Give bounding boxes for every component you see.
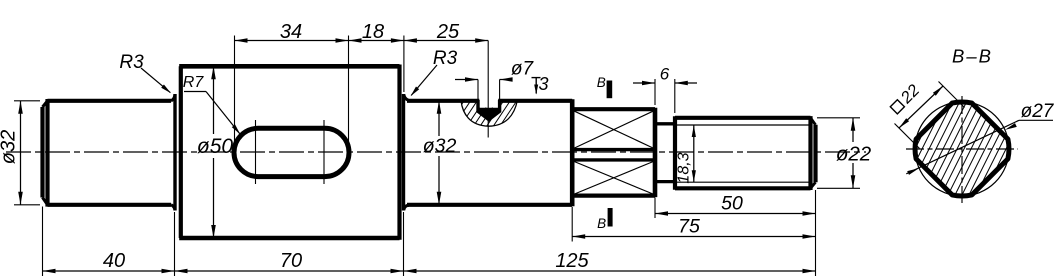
dimension line Ø50: [213, 66, 215, 134]
svg-text:ø32: ø32: [423, 135, 457, 157]
leader R3 right: [411, 65, 437, 95]
section mark B top bar: [607, 81, 613, 99]
leader R7: [184, 91, 206, 93]
extension line at keyway left end: [234, 36, 236, 153]
section mark B bottom bar: [608, 208, 613, 227]
svg-text:В: В: [597, 75, 606, 90]
break-out section boundary (freehand arc): [461, 101, 517, 127]
B-B square outline (thick): [915, 102, 1009, 196]
extension of NE flat: [939, 82, 965, 108]
square flats crossed diagonals (lower): [575, 162, 654, 194]
svg-text:В–В: В–В: [952, 46, 993, 67]
extension line at shaft right end bottom: [815, 190, 817, 276]
thread relief groove outline: [657, 122, 674, 125]
break-out hatching: [430, 99, 577, 132]
square section outline: [572, 107, 655, 111]
extension line left step bottom: [174, 212, 176, 276]
extension line right step bottom: [403, 212, 405, 276]
dimension line 34: [235, 40, 349, 42]
dimension line Ø22: [852, 118, 854, 142]
svg-text:70: 70: [280, 250, 302, 272]
extension line at square left (x=572) bottom: [571, 207, 573, 242]
hole white interior mask: [479, 96, 498, 108]
dimension line 50: [655, 213, 816, 215]
dimension line Ø32 middle: [438, 101, 440, 136]
keyway slot left arc centerline: [255, 120, 257, 184]
extension lines Ø22: [817, 117, 860, 119]
dimension line 125: [404, 270, 816, 272]
dimension line 25: [404, 40, 488, 42]
extension line at step (x=404): [403, 36, 405, 93]
B-B hatching: [790, 39, 1064, 259]
B-B circle Ø27 (thin): [915, 102, 1009, 196]
keyway slot (34 long, R7 ends): [234, 128, 349, 176]
svg-text:3: 3: [539, 74, 549, 94]
right end chamfer: [808, 116, 812, 190]
svg-text:В: В: [597, 216, 606, 231]
keyway slot right arc centerline: [323, 120, 325, 184]
extension lines 6: [654, 79, 656, 105]
dimension line Ø32 left: [20, 101, 22, 205]
dimension line 75: [572, 236, 815, 238]
svg-text:75: 75: [678, 216, 700, 238]
right shoulder relief groove line: [402, 94, 405, 211]
extension of SW flat: [895, 124, 920, 149]
dimension line 40: [43, 270, 175, 272]
svg-text:34: 34: [280, 21, 302, 43]
svg-text:25: 25: [436, 21, 460, 43]
extension line left end bottom: [42, 207, 44, 277]
svg-text:ø32: ø32: [0, 130, 20, 164]
svg-text:18,3: 18,3: [676, 152, 693, 183]
svg-text:ø50: ø50: [197, 135, 234, 158]
svg-text:125: 125: [555, 250, 589, 272]
svg-text:R3: R3: [119, 52, 144, 73]
hole Ø7 outline with drill point: [478, 100, 500, 120]
dimension Ø7 arrows: [455, 79, 478, 81]
svg-text:40: 40: [103, 250, 125, 272]
Ø32 section outline (middle): [407, 99, 572, 103]
Ø50 section outline: [179, 64, 399, 69]
left step fillet R3 curls: [171, 95, 175, 101]
square section left face: [570, 99, 575, 206]
square flats crossed diagonals (upper): [575, 111, 654, 148]
svg-text:R3: R3: [433, 48, 458, 69]
dimension line 18,3: [693, 125, 695, 182]
thread minor diameter lines: [677, 124, 810, 126]
square section flat band lines: [574, 148, 653, 151]
extension lines Ø32 left: [14, 100, 40, 102]
svg-text:50: 50: [721, 193, 743, 215]
svg-text:6: 6: [660, 65, 670, 84]
dimension line 70: [175, 270, 404, 272]
svg-text:18: 18: [362, 21, 384, 43]
Ø27 dimension line through center: [906, 120, 1019, 174]
hole vertical centerline: [487, 41, 489, 138]
extension line at groove right (x=655) bottom: [654, 198, 656, 219]
B-B centerlines: [961, 96, 963, 203]
svg-text:ø27: ø27: [1021, 101, 1055, 122]
right step fillet R3 curls: [404, 95, 409, 101]
left shoulder relief groove line: [173, 94, 176, 211]
svg-text:R7: R7: [183, 74, 205, 91]
left shaft body Ø40 section outline: [48, 99, 172, 103]
depth-3 mark: [532, 77, 541, 79]
centerline main axis: [6, 151, 866, 153]
svg-text:ø7: ø7: [511, 59, 535, 80]
Ø22 section left face: [673, 116, 677, 190]
svg-text:ø22: ø22: [836, 143, 872, 166]
label square-22: [888, 81, 924, 117]
extension lines Ø7: [477, 80, 479, 100]
dimension line 18: [349, 40, 404, 42]
leader R3 left: [141, 68, 170, 93]
dimension 6 arrows: [633, 82, 655, 84]
left shoulder face of Ø50 section: [179, 66, 183, 238]
Ø22 section outline: [675, 116, 811, 120]
extension line at keyway right end: [348, 36, 350, 153]
dimension line square-22: [899, 86, 943, 128]
